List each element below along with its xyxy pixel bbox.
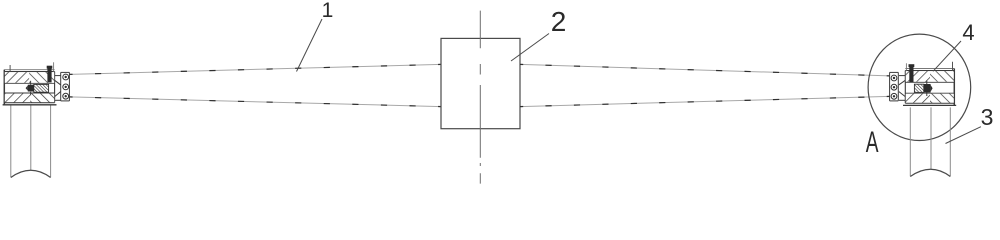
detail view circle A bbox=[868, 34, 971, 140]
label 3 leader bbox=[946, 127, 981, 144]
right concrete column bbox=[910, 107, 950, 176]
centerline of body 2 (dash-dot) bbox=[479, 11, 481, 184]
turnbuckle body 2 bbox=[441, 38, 520, 128]
stay rod 1 lower line (left half) bbox=[69, 97, 441, 107]
svg-text:A: A bbox=[866, 126, 879, 159]
stay rod lower line (right half) bbox=[520, 96, 890, 106]
left anchor block housing outline bbox=[3, 70, 57, 105]
right rod head tick marks bbox=[926, 81, 928, 85]
label 2 leader bbox=[511, 34, 549, 62]
left block corner upstand lines bbox=[9, 65, 11, 72]
right block bottom hatch band bbox=[906, 94, 930, 103]
right column break arc bbox=[910, 169, 950, 176]
label 4 leader bbox=[933, 41, 961, 71]
left anchor rod in bore (hatched) bbox=[34, 84, 49, 92]
svg-text:2: 2 bbox=[551, 6, 567, 37]
svg-text:4: 4 bbox=[962, 20, 974, 45]
svg-text:3: 3 bbox=[981, 104, 994, 130]
right block top hatch band bbox=[906, 71, 930, 82]
left block bottom hatch band bbox=[5, 94, 30, 103]
left rod head tick marks bbox=[30, 81, 32, 85]
svg-text:1: 1 bbox=[322, 0, 334, 22]
right block corner upstand lines bbox=[952, 62, 954, 71]
stay rod upper line (right half) bbox=[520, 64, 890, 76]
right anchor rod nut head bbox=[924, 84, 931, 93]
left anchor funnel lines bbox=[55, 76, 61, 101]
right bearing plate bbox=[890, 72, 899, 101]
right anchor funnel lines bbox=[899, 76, 905, 101]
left concrete column bbox=[11, 105, 51, 177]
label 1 leader bbox=[297, 19, 323, 72]
left anchor rod nut head bbox=[28, 85, 34, 92]
right anchor rod in bore (hatched) bbox=[914, 84, 923, 92]
right vertical clamp bolt bbox=[909, 67, 913, 82]
right anchor block housing outline bbox=[903, 69, 956, 106]
left plate bolt circles bbox=[63, 74, 69, 99]
left vertical clamp bolt bbox=[47, 68, 51, 82]
stay rod 1 upper line (left half) bbox=[69, 64, 441, 74]
right plate bolt circles bbox=[891, 75, 897, 99]
left block top hatch band bbox=[5, 72, 29, 83]
left bearing plate bbox=[61, 72, 70, 101]
left column break arc bbox=[11, 170, 51, 177]
